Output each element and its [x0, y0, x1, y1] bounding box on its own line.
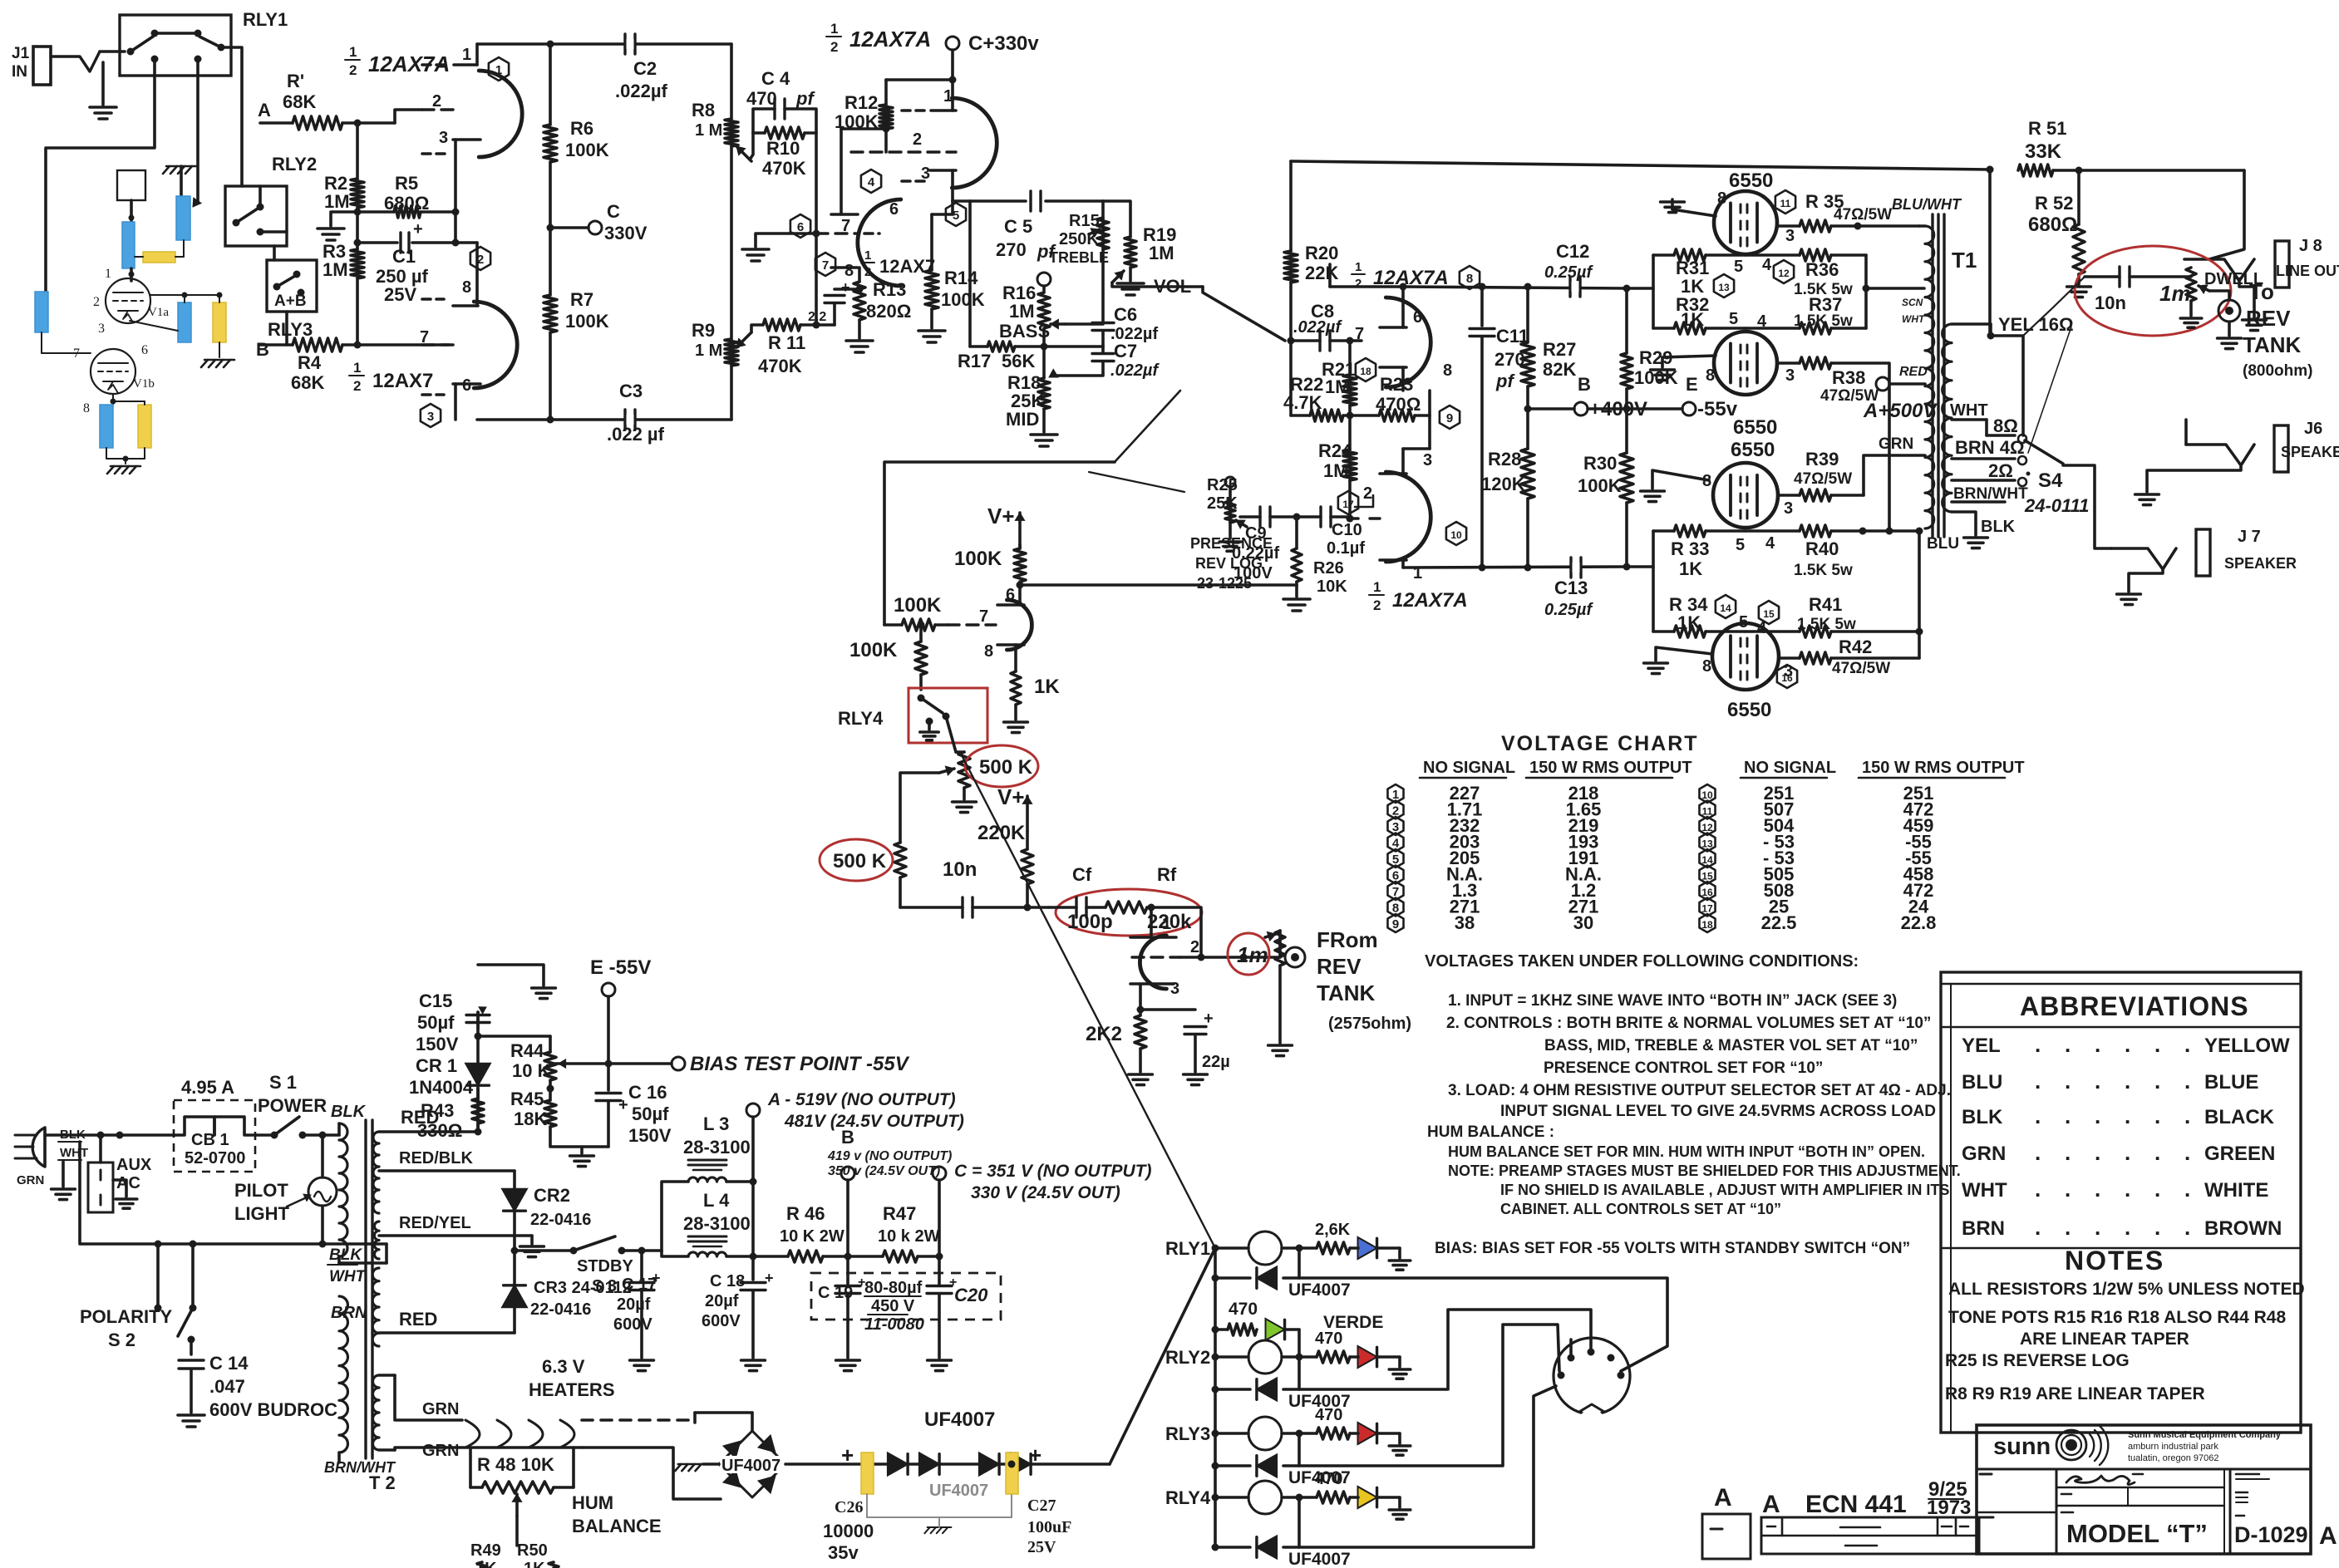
- terminal B (supply): [841, 1167, 854, 1180]
- svg-text:5: 5: [1734, 258, 1743, 276]
- RCA connector to rev tank: [2218, 300, 2240, 322]
- svg-text:R 52: R 52: [2035, 193, 2073, 214]
- svg-text:.022µf: .022µf: [615, 81, 667, 101]
- svg-text:R7: R7: [570, 289, 593, 310]
- svg-text:C27: C27: [1027, 1497, 1056, 1515]
- svg-text:.: .: [2095, 1032, 2100, 1057]
- wire R8 wiper to C4/R10: [750, 133, 753, 160]
- svg-text:1K: 1K: [1677, 612, 1701, 633]
- capacitor C8 .022uf: [1291, 339, 1320, 342]
- wire recovery output to REV TANK jack: [1201, 956, 1280, 959]
- svg-text:J6: J6: [2304, 420, 2322, 438]
- svg-text:RLY1: RLY1: [1165, 1238, 1210, 1259]
- svg-text:BALANCE: BALANCE: [572, 1516, 662, 1536]
- svg-text:C 18: C 18: [710, 1272, 745, 1290]
- resistor RLY1 LED series: [1317, 1242, 1350, 1254]
- resistor Rf 220k: [1105, 902, 1147, 913]
- svg-text:BLU: BLU: [1962, 1071, 2002, 1094]
- wire R9 wiper to R11: [751, 325, 763, 332]
- svg-text:47Ω/5W: 47Ω/5W: [1832, 660, 1890, 677]
- capacitor 22u cathode recovery: [1137, 1006, 1145, 1014]
- svg-text:VOLTAGE CHART: VOLTAGE CHART: [1501, 732, 1699, 755]
- capacitor C26 yellow: [861, 1452, 874, 1494]
- presence pot R25 25K: [1229, 501, 1232, 523]
- voltage chart node 13: [1699, 833, 1715, 852]
- svg-text:1: 1: [1162, 915, 1171, 933]
- svg-text:BRN 4Ω: BRN 4Ω: [1955, 437, 2025, 458]
- wire dwell to RCA: [2209, 291, 2229, 299]
- secondary RED/BLK lead: [379, 1169, 515, 1172]
- wire RLY1 to DIN: [1299, 1278, 1667, 1371]
- svg-text:600V BUDROC: 600V BUDROC: [209, 1399, 337, 1420]
- svg-text:22.8: 22.8: [1901, 912, 1937, 933]
- triode V2a: [479, 71, 522, 157]
- wire feedback top rail: [1291, 161, 1990, 170]
- svg-text:2: 2: [830, 39, 838, 55]
- output transformer T1: [1931, 214, 1933, 537]
- svg-text:WHT: WHT: [1950, 401, 1988, 420]
- svg-text:RLY2: RLY2: [272, 154, 317, 174]
- svg-text:C2: C2: [633, 58, 657, 79]
- capacitor C27 yellow: [1006, 1452, 1018, 1494]
- svg-text:1M: 1M: [1325, 376, 1351, 397]
- wire reverb return to PI: [1020, 583, 1297, 587]
- diode CR3 22-0416: [502, 1285, 527, 1307]
- svg-text:R50: R50: [517, 1541, 548, 1560]
- voltage chart node 4: [1387, 833, 1403, 852]
- svg-text:R8 R9 R19 ARE LINEAR TAPER: R8 R9 R19 ARE LINEAR TAPER: [1945, 1384, 2205, 1403]
- heater filaments: [465, 1420, 480, 1448]
- svg-text:A: A: [258, 100, 271, 120]
- svg-text:E: E: [1686, 374, 1698, 395]
- wire RLY2 to RLY3: [273, 246, 276, 260]
- wire cathode bus: [454, 212, 457, 243]
- capacitor C5 270pf: [1029, 191, 1032, 211]
- svg-text:C12: C12: [1556, 241, 1589, 262]
- resistor R27 82K: [1526, 287, 1529, 342]
- svg-text:To: To: [2249, 279, 2274, 304]
- svg-text:0.22µf: 0.22µf: [1232, 544, 1279, 563]
- svg-text:RED: RED: [1899, 365, 1928, 379]
- capacitor 10n recovery: [900, 906, 963, 909]
- svg-text:8: 8: [845, 262, 854, 280]
- svg-text:.: .: [2154, 1103, 2160, 1128]
- wire plate V3a to tone box: [953, 199, 970, 203]
- loop top wire: [477, 42, 731, 46]
- svg-text:.: .: [2035, 1069, 2041, 1094]
- wire 500K wiper down: [900, 773, 939, 843]
- svg-text:R45: R45: [510, 1089, 544, 1109]
- svg-text:1K: 1K: [1681, 309, 1704, 330]
- svg-text:8: 8: [83, 401, 90, 415]
- svg-text:+: +: [1029, 1443, 1041, 1467]
- wire AC ground to gnd: [62, 1162, 65, 1187]
- diode CR2 22-0416: [513, 1171, 516, 1190]
- resistor RLY4 LED series: [1317, 1492, 1350, 1503]
- svg-text:NOTE: PREAMP STAGES MUST BE SH: NOTE: PREAMP STAGES MUST BE SHIELDED FOR…: [1448, 1162, 1961, 1179]
- wire J1 sleeve to ground: [101, 62, 105, 105]
- svg-text:HUM: HUM: [572, 1492, 613, 1513]
- svg-text:.: .: [2095, 1103, 2100, 1128]
- svg-text:.: .: [2184, 1140, 2190, 1165]
- ground under R14: [918, 329, 945, 332]
- terminal E -55V (supply): [602, 983, 615, 996]
- svg-text:HEATERS: HEATERS: [529, 1379, 615, 1400]
- capacitor C18 20uf 600V: [751, 1256, 755, 1280]
- svg-text:330V: 330V: [604, 223, 648, 243]
- resistor R12 100K: [879, 105, 893, 129]
- title block outer box: [1977, 1425, 2311, 1554]
- svg-text:.: .: [2035, 1177, 2041, 1202]
- svg-text:2: 2: [1355, 277, 1362, 291]
- svg-text:2: 2: [1373, 597, 1381, 613]
- svg-text:R 46: R 46: [786, 1203, 825, 1224]
- wire S4 common to speaker jacks: [2063, 465, 2111, 548]
- svg-text:12: 12: [1778, 268, 1790, 279]
- svg-text:B: B: [256, 339, 269, 360]
- capacitor C11 270pf: [1480, 287, 1484, 326]
- svg-text:8Ω: 8Ω: [1993, 415, 2018, 436]
- svg-text:R39: R39: [1805, 449, 1839, 469]
- resistor yellow (fragment): [143, 252, 175, 263]
- svg-text:8: 8: [1443, 361, 1452, 380]
- svg-text:3: 3: [427, 410, 434, 424]
- svg-text:R24: R24: [1318, 440, 1352, 461]
- svg-text:7: 7: [979, 607, 988, 626]
- svg-text:AC: AC: [116, 1174, 140, 1192]
- capacitor C17 20uf 600V: [640, 1251, 643, 1280]
- wire R44 branch: [478, 1035, 550, 1038]
- svg-text:470K: 470K: [762, 158, 806, 179]
- svg-text:SPEAKER: SPEAKER: [2224, 555, 2297, 572]
- svg-text:TANK: TANK: [1317, 981, 1376, 1005]
- svg-text:(2575ohm): (2575ohm): [1328, 1015, 1411, 1033]
- svg-text:STDBY: STDBY: [577, 1257, 633, 1276]
- svg-text:RLY2: RLY2: [1165, 1347, 1210, 1368]
- capacitor C16 50uf 150V: [596, 1092, 621, 1094]
- svg-text:3. LOAD: 4 OHM RESISTIVE O: 3. LOAD: 4 OHM RESISTIVE OUTPUT SELECTOR…: [1448, 1082, 1951, 1099]
- red ellipse dwell: [2075, 246, 2231, 336]
- resistor R5 680: [394, 206, 421, 218]
- ground RCA: [2218, 337, 2242, 340]
- svg-text:GRN: GRN: [1962, 1143, 2006, 1165]
- svg-text:100K: 100K: [894, 594, 942, 617]
- svg-text:1m: 1m: [2159, 281, 2191, 306]
- svg-text:1M: 1M: [1149, 243, 1174, 263]
- diagonal tone to reverb 2: [1089, 472, 1184, 492]
- svg-text:330Ω: 330Ω: [417, 1120, 462, 1141]
- svg-text:150V: 150V: [416, 1034, 459, 1054]
- svg-text:2.2: 2.2: [808, 310, 826, 324]
- svg-text:470: 470: [1315, 1470, 1342, 1488]
- wire R10 node down to hex6: [815, 133, 818, 233]
- svg-text:pf: pf: [1495, 371, 1515, 391]
- T1 primary winding: [1925, 226, 1934, 528]
- resistor R30 100K: [1625, 409, 1628, 453]
- svg-text:T 2: T 2: [369, 1472, 396, 1493]
- svg-text:pf: pf: [795, 88, 815, 109]
- svg-text:8: 8: [462, 278, 471, 297]
- red oval 100p 220k: [1056, 889, 1202, 936]
- triode V3a: [952, 98, 997, 188]
- svg-text:C 17: C 17: [622, 1276, 657, 1294]
- svg-text:NO SIGNAL: NO SIGNAL: [1744, 759, 1836, 777]
- svg-text:100K: 100K: [1634, 367, 1678, 388]
- secondary tap BLK to ground: [1952, 512, 1976, 535]
- capacitor C15 50uf 150V: [476, 1012, 480, 1022]
- wire DIN pin down-left: [1569, 1339, 1573, 1358]
- resistor R39 470/5W: [1778, 494, 1800, 497]
- svg-text:L 3: L 3: [703, 1113, 729, 1134]
- resistor R11 470K: [763, 319, 800, 331]
- wire input A: [260, 121, 293, 125]
- resistor 1M grid leak: [1278, 931, 1282, 957]
- svg-text:4: 4: [1762, 256, 1772, 274]
- svg-text:680Ω: 680Ω: [384, 193, 429, 214]
- svg-text:10n: 10n: [943, 858, 977, 881]
- svg-text:tualatin, oregon 97062: tualatin, oregon 97062: [2128, 1453, 2218, 1463]
- wire pilot light connections: [321, 1135, 324, 1177]
- svg-text:.: .: [2125, 1032, 2130, 1057]
- svg-text:100K: 100K: [941, 289, 985, 310]
- secondary tap BRN/WHT: [1952, 500, 2005, 504]
- gray return rail: [866, 1494, 868, 1517]
- svg-text:YELLOW: YELLOW: [2204, 1035, 2290, 1057]
- svg-text:S4: S4: [2038, 469, 2063, 492]
- svg-text:GRN: GRN: [422, 1400, 459, 1418]
- svg-text:V+: V+: [997, 784, 1025, 809]
- svg-text:2: 2: [93, 295, 100, 309]
- pot R9 1M: [725, 339, 738, 366]
- svg-text:1.5K 5w: 1.5K 5w: [1797, 616, 1856, 633]
- svg-text:14: 14: [1701, 854, 1713, 866]
- capacitor C20: [927, 1285, 952, 1287]
- ground top of C15: [532, 986, 556, 990]
- svg-text:4: 4: [1765, 534, 1775, 553]
- svg-text:AUX: AUX: [116, 1156, 152, 1174]
- svg-text:BRN: BRN: [331, 1304, 367, 1322]
- svg-text:R': R': [287, 71, 304, 91]
- svg-text:470: 470: [1315, 1406, 1342, 1424]
- resistor R40 1.5K 5W: [1746, 529, 1800, 533]
- svg-text:WHT: WHT: [1962, 1179, 2007, 1202]
- wire grid row recovery: [1027, 906, 1049, 909]
- svg-text:6: 6: [797, 220, 804, 234]
- wire AC hot: [45, 1133, 120, 1137]
- jack J8 LINE OUT: [2275, 241, 2289, 288]
- svg-text:6550: 6550: [1731, 439, 1775, 461]
- svg-text:C: C: [607, 201, 620, 222]
- diode CR1 1N4004: [465, 1064, 490, 1085]
- wire PI lower plate row: [1403, 567, 1627, 568]
- svg-text:L 4: L 4: [703, 1190, 730, 1211]
- svg-text:481V (24.5V OUTPUT): 481V (24.5V OUTPUT): [784, 1112, 964, 1131]
- svg-text:RED/BLK: RED/BLK: [399, 1149, 473, 1167]
- svg-text:BRN/WHT: BRN/WHT: [1953, 485, 2028, 503]
- svg-text:C 5: C 5: [1004, 216, 1032, 237]
- chassis ground bridge: [703, 1462, 719, 1466]
- svg-text:1: 1: [1355, 260, 1362, 274]
- svg-text:VERDE: VERDE: [1323, 1313, 1383, 1332]
- wire RLY4 to DIN: [1299, 1386, 1556, 1547]
- wire RLY3 to DIN: [1299, 1325, 1559, 1466]
- relay RLY2 contacts box: [225, 186, 287, 246]
- wire R20 column: [1289, 161, 1293, 251]
- svg-text:ECN 441: ECN 441: [1805, 1491, 1907, 1518]
- svg-text:8: 8: [1702, 657, 1711, 676]
- svg-text:J 7: J 7: [2238, 528, 2261, 546]
- svg-text:R10: R10: [766, 138, 800, 159]
- wire RLY1 left pole down: [46, 59, 155, 292]
- jack J6 SPEAKER: [2274, 425, 2288, 472]
- capacitor C3 .022uf: [623, 410, 626, 430]
- svg-text:R43: R43: [421, 1100, 454, 1121]
- svg-text:A: A: [1714, 1484, 1732, 1511]
- svg-text:WHT: WHT: [60, 1146, 88, 1160]
- svg-text:C6: C6: [1114, 304, 1137, 325]
- hex5 node: [946, 203, 966, 226]
- svg-text:BLK: BLK: [1962, 1106, 2003, 1128]
- resistor 1m dwell pot: [2130, 275, 2191, 278]
- capacitor C10 0.1uf: [1297, 515, 1321, 519]
- svg-text:T1: T1: [1952, 248, 1977, 273]
- svg-text:.: .: [2184, 1103, 2190, 1128]
- resistor R20 22K: [1284, 251, 1298, 283]
- svg-text:17: 17: [1701, 903, 1713, 915]
- capacitor C19: [835, 1285, 860, 1287]
- svg-text:2: 2: [432, 92, 441, 111]
- svg-text:R40: R40: [1805, 538, 1839, 559]
- svg-text:.: .: [2035, 1140, 2041, 1165]
- resistor R51 33K: [1987, 166, 1994, 174]
- voltage chart node 10: [1699, 784, 1715, 803]
- ground tube4: [1656, 647, 1712, 661]
- wire PI plate row: [1330, 285, 1403, 288]
- capacitor C9 0.22uf: [1240, 515, 1260, 519]
- resistor R43 330: [472, 1099, 484, 1123]
- svg-text:RLY4: RLY4: [838, 708, 884, 729]
- svg-text:25V: 25V: [384, 284, 416, 305]
- green LED VERDE branch: [1212, 1326, 1219, 1334]
- svg-text:6: 6: [141, 343, 148, 357]
- svg-text:25K: 25K: [1207, 494, 1238, 513]
- svg-text:100K: 100K: [565, 311, 609, 332]
- svg-text:9: 9: [1446, 411, 1453, 425]
- capacitor C6 .022uf: [1066, 322, 1103, 326]
- svg-text:22-0416: 22-0416: [530, 1211, 591, 1229]
- flyback diode UF4007 RLY2: [1212, 1386, 1219, 1394]
- svg-text:18K: 18K: [514, 1108, 547, 1129]
- capacitor C7 .022uf: [1101, 347, 1105, 353]
- svg-text:C13: C13: [1554, 578, 1588, 598]
- svg-text:.: .: [2154, 1140, 2160, 1165]
- svg-text:R15: R15: [1069, 212, 1100, 230]
- resistor blue bottom (fragment): [100, 405, 113, 448]
- resistor yellow bottom (fragment): [138, 405, 151, 448]
- terminal above R16: [1037, 273, 1051, 286]
- ground at J1: [90, 106, 116, 109]
- resistor R47 10K 2W: [883, 1251, 918, 1262]
- flyback diode UF4007 RLY3: [1212, 1462, 1219, 1470]
- svg-text:18: 18: [1360, 366, 1371, 377]
- svg-text:4: 4: [868, 175, 875, 189]
- svg-text:R36: R36: [1805, 259, 1839, 280]
- svg-text:TONE POTS R15 R16 R18 ALS: TONE POTS R15 R16 R18 ALSO R44 R48: [1948, 1308, 2286, 1327]
- svg-text:3: 3: [1784, 499, 1793, 518]
- svg-text:TANK: TANK: [2243, 332, 2302, 357]
- svg-text:C = 351 V (NO OUTPUT): C = 351 V (NO OUTPUT): [954, 1162, 1151, 1181]
- secondary tap WHT 8 ohm: [1952, 418, 1987, 421]
- svg-text:BLUE: BLUE: [2204, 1071, 2258, 1094]
- voltage chart node 15: [1699, 866, 1715, 884]
- wire plate V2b to C1 row: [455, 241, 477, 244]
- svg-text:33K: 33K: [2025, 140, 2062, 163]
- svg-text:CABINET. ALL CONTROLS SET AT: CABINET. ALL CONTROLS SET AT “10”: [1500, 1201, 1781, 1217]
- voltage chart node 9: [1387, 914, 1403, 932]
- resistor R2 1M: [351, 179, 364, 208]
- svg-text:1: 1: [462, 46, 471, 64]
- screen box tubes 3-4: [1652, 531, 1655, 632]
- voltage chart node 8: [1387, 898, 1403, 917]
- resistor RLY3 LED series: [1317, 1428, 1350, 1439]
- svg-text:68K: 68K: [283, 91, 316, 112]
- ground tube3: [1652, 470, 1709, 489]
- svg-text:B: B: [1578, 374, 1591, 395]
- svg-text:.: .: [2065, 1140, 2071, 1165]
- svg-text:1 M: 1 M: [695, 342, 722, 360]
- wire R16 to R18: [1042, 328, 1046, 378]
- svg-text:Sunn Musical Equipment Company: Sunn Musical Equipment Company: [2128, 1430, 2282, 1440]
- ground under R13: [846, 339, 873, 342]
- pot 500K no.2: [894, 843, 906, 877]
- wire VOL output diagonal to C8: [1203, 287, 1285, 341]
- svg-text:.: .: [2125, 1103, 2130, 1128]
- svg-text:82K: 82K: [1543, 359, 1576, 380]
- terminal B +400V: [1528, 407, 1574, 410]
- svg-text:.: .: [2184, 1215, 2190, 1240]
- svg-text:52-0700: 52-0700: [185, 1149, 245, 1167]
- resistor 100K to RLY4: [919, 625, 923, 641]
- wire neutral rail: [80, 1142, 387, 1244]
- svg-text:S 1: S 1: [269, 1072, 297, 1093]
- svg-text:R17: R17: [958, 351, 991, 371]
- svg-text:R27: R27: [1543, 339, 1576, 360]
- circuit breaker CB1 dashed box: [174, 1100, 255, 1172]
- C15 column: [476, 1089, 480, 1132]
- svg-text:20µf: 20µf: [617, 1295, 651, 1314]
- triode V2b: [474, 302, 517, 388]
- resistor R41 1.5K 5W: [1746, 630, 1800, 633]
- svg-text:10: 10: [1701, 789, 1713, 801]
- capacitor C12 0.25uf: [1568, 277, 1571, 297]
- svg-text:3: 3: [439, 129, 448, 147]
- pot R18 25K MID: [1038, 378, 1050, 409]
- svg-text:GRN: GRN: [422, 1442, 459, 1460]
- svg-text:10n: 10n: [2095, 292, 2126, 313]
- svg-text:GREEN: GREEN: [2204, 1143, 2275, 1165]
- svg-text:18: 18: [1701, 919, 1713, 931]
- svg-text:BLACK: BLACK: [2204, 1106, 2275, 1128]
- svg-text:R13: R13: [873, 279, 906, 300]
- svg-text:+: +: [765, 1270, 774, 1286]
- wire GRN jog to primary: [1864, 455, 1925, 495]
- svg-text:10K: 10K: [1317, 578, 1347, 596]
- selector S4 wiper: [2025, 440, 2063, 464]
- svg-text:150V: 150V: [628, 1125, 672, 1146]
- svg-text:.: .: [2065, 1069, 2071, 1094]
- resistor blue 2 (fragment): [178, 302, 191, 342]
- svg-text:3: 3: [1785, 227, 1795, 245]
